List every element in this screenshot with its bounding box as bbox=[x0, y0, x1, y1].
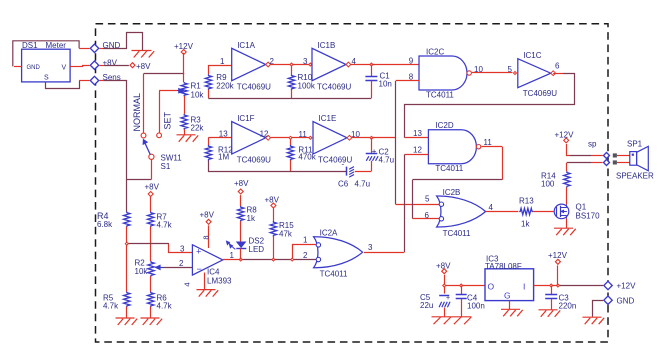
svg-text:1: 1 bbox=[303, 236, 308, 245]
svg-text:+8V: +8V bbox=[265, 196, 280, 205]
svg-text:6.8k: 6.8k bbox=[97, 220, 113, 229]
svg-text:1k: 1k bbox=[521, 219, 530, 228]
svg-text:IC2C: IC2C bbox=[426, 47, 444, 56]
svg-text:IC2A: IC2A bbox=[320, 229, 338, 238]
svg-text:DS1: DS1 bbox=[22, 41, 38, 50]
svg-text:1: 1 bbox=[220, 57, 225, 66]
svg-text:BS170: BS170 bbox=[576, 212, 601, 221]
svg-text:1k: 1k bbox=[247, 214, 256, 223]
svg-text:TC4011: TC4011 bbox=[320, 270, 348, 279]
svg-text:5: 5 bbox=[425, 195, 430, 204]
svg-text:4.7k: 4.7k bbox=[157, 302, 173, 311]
svg-text:11: 11 bbox=[484, 138, 493, 147]
svg-text:S1: S1 bbox=[161, 162, 171, 171]
svg-text:+8V: +8V bbox=[145, 183, 160, 192]
svg-text:IC1B: IC1B bbox=[318, 41, 336, 50]
svg-text:6: 6 bbox=[425, 211, 430, 220]
svg-text:R13: R13 bbox=[519, 197, 534, 206]
svg-text:1M: 1M bbox=[218, 153, 229, 162]
svg-text:4: 4 bbox=[183, 282, 192, 286]
svg-text:22u: 22u bbox=[420, 301, 433, 310]
svg-text:LED: LED bbox=[249, 245, 265, 254]
svg-text:S: S bbox=[44, 75, 49, 82]
svg-text:100n: 100n bbox=[467, 302, 485, 311]
svg-text:TC4069U: TC4069U bbox=[237, 156, 271, 165]
svg-text:Q1: Q1 bbox=[576, 203, 587, 212]
svg-text:13: 13 bbox=[219, 129, 228, 138]
svg-text:+12V: +12V bbox=[555, 131, 575, 140]
svg-text:TC4011: TC4011 bbox=[426, 91, 454, 100]
svg-text:10k: 10k bbox=[191, 90, 205, 99]
svg-text:+: + bbox=[196, 247, 201, 257]
svg-text:+12V: +12V bbox=[617, 282, 637, 291]
svg-text:IC1C: IC1C bbox=[523, 51, 541, 60]
svg-text:9: 9 bbox=[409, 56, 414, 65]
svg-text:2: 2 bbox=[179, 259, 184, 268]
svg-text:SET: SET bbox=[163, 111, 173, 129]
svg-text:22k: 22k bbox=[191, 123, 205, 132]
svg-text:1: 1 bbox=[230, 251, 235, 260]
svg-text:TC4011: TC4011 bbox=[443, 229, 471, 238]
svg-text:IC1F: IC1F bbox=[237, 114, 254, 123]
svg-text:+8V: +8V bbox=[136, 62, 151, 71]
svg-text:+8V: +8V bbox=[234, 179, 249, 188]
svg-text:5: 5 bbox=[508, 65, 513, 74]
svg-text:GND: GND bbox=[617, 296, 635, 305]
svg-text:220n: 220n bbox=[559, 302, 577, 311]
svg-text:8: 8 bbox=[202, 235, 211, 239]
svg-text:12: 12 bbox=[413, 145, 422, 154]
svg-text:4.7u: 4.7u bbox=[355, 180, 371, 189]
svg-text:100k: 100k bbox=[298, 81, 316, 90]
svg-text:+8V: +8V bbox=[200, 211, 215, 220]
svg-text:TA78L08F: TA78L08F bbox=[485, 262, 522, 271]
svg-text:GND: GND bbox=[27, 65, 41, 71]
svg-text:+: + bbox=[446, 295, 450, 302]
svg-text:IC1E: IC1E bbox=[319, 114, 337, 123]
svg-text:G: G bbox=[504, 291, 511, 301]
svg-text:3: 3 bbox=[303, 57, 308, 66]
svg-text:6: 6 bbox=[555, 62, 560, 71]
svg-text:10: 10 bbox=[474, 65, 483, 74]
svg-text:13: 13 bbox=[413, 129, 422, 138]
svg-text:100: 100 bbox=[541, 180, 555, 189]
svg-text:2: 2 bbox=[303, 251, 308, 260]
svg-text:TC4069U: TC4069U bbox=[237, 82, 271, 91]
svg-text:I: I bbox=[523, 282, 525, 292]
svg-text:sp: sp bbox=[588, 140, 597, 149]
svg-text:IC2B: IC2B bbox=[443, 188, 461, 197]
svg-text:4: 4 bbox=[489, 203, 494, 212]
svg-text:TC4011: TC4011 bbox=[435, 164, 463, 173]
svg-text:11: 11 bbox=[299, 130, 308, 139]
svg-text:10k: 10k bbox=[135, 267, 149, 276]
svg-text:+: + bbox=[372, 147, 377, 156]
svg-text:47k: 47k bbox=[279, 230, 293, 239]
svg-text:NORMAL: NORMAL bbox=[132, 93, 142, 132]
svg-text:−: − bbox=[197, 264, 202, 274]
svg-text:4.7k: 4.7k bbox=[103, 302, 119, 311]
svg-text:LM393: LM393 bbox=[207, 277, 232, 286]
svg-text:TC4069U: TC4069U bbox=[318, 156, 352, 165]
svg-text:IC4: IC4 bbox=[207, 268, 220, 277]
svg-text:220k: 220k bbox=[216, 81, 234, 90]
svg-text:O: O bbox=[488, 282, 495, 292]
svg-text:12: 12 bbox=[260, 129, 269, 138]
svg-text:IC1A: IC1A bbox=[237, 41, 255, 50]
svg-text:3: 3 bbox=[368, 243, 373, 252]
svg-text:R1: R1 bbox=[191, 82, 202, 91]
svg-text:V: V bbox=[62, 65, 67, 72]
svg-text:TC4069U: TC4069U bbox=[523, 89, 557, 98]
svg-text:SPEAKER: SPEAKER bbox=[616, 172, 654, 181]
svg-text:Meter: Meter bbox=[46, 41, 67, 50]
svg-text:SP1: SP1 bbox=[627, 140, 643, 149]
svg-text:TC4069U: TC4069U bbox=[317, 82, 351, 91]
svg-text:10n: 10n bbox=[379, 80, 392, 89]
svg-text:4.7k: 4.7k bbox=[157, 221, 173, 230]
svg-text:IC2D: IC2D bbox=[435, 121, 453, 130]
svg-text:4.7u: 4.7u bbox=[379, 156, 395, 165]
svg-text:-: - bbox=[342, 160, 345, 169]
svg-text:C6: C6 bbox=[338, 180, 349, 189]
svg-text:3: 3 bbox=[180, 245, 185, 254]
